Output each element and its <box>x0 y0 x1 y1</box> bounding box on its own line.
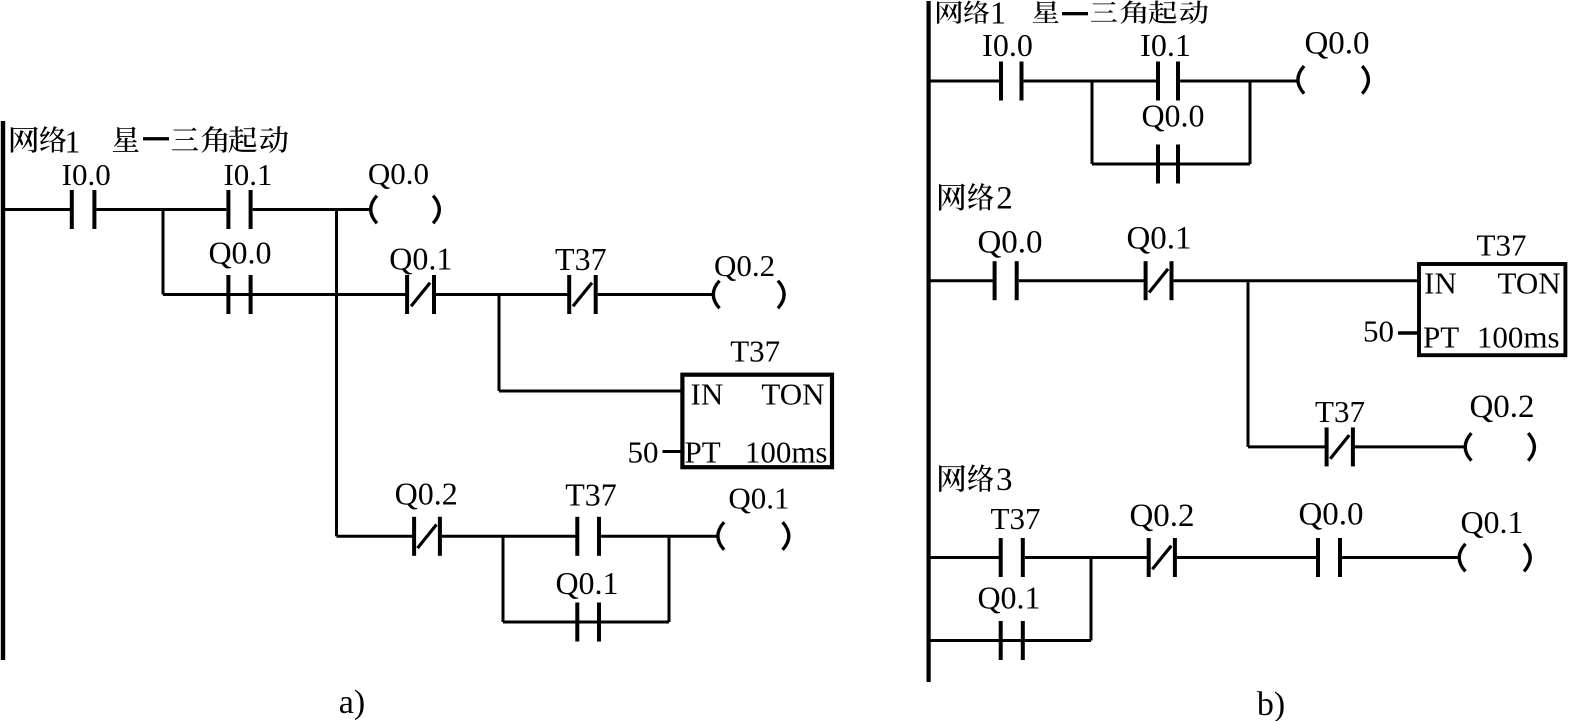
wire: T37 to coil Q0.2 (a) <box>598 293 714 296</box>
contact Q0.0 parallel (a) <box>208 235 271 315</box>
svg-text:1: 1 <box>990 0 1006 31</box>
contact T37 (b net3) <box>991 501 1041 577</box>
coil Q0.2 (a) <box>713 248 784 308</box>
network 1 title (panel a): 网络1 星-三角起动 <box>11 124 288 160</box>
svg-text:50: 50 <box>1363 314 1394 349</box>
wire: Q0.1 to timer IN (b net2) <box>1174 279 1419 282</box>
junction drop wire (b net1): left <box>1091 81 1094 164</box>
svg-text:T37: T37 <box>1315 394 1365 429</box>
junction drop wire (b net1): right <box>1249 81 1252 164</box>
svg-text:Q0.1: Q0.1 <box>389 241 452 277</box>
contact Q0.2 NC (b net3) <box>1129 498 1194 577</box>
svg-text:TON: TON <box>761 377 824 412</box>
svg-text:Q0.1: Q0.1 <box>1126 221 1191 257</box>
wire: T37 to coil Q0.2 (b net2) <box>1355 445 1465 448</box>
svg-text:Q0.0: Q0.0 <box>368 156 429 191</box>
svg-text:TON: TON <box>1497 266 1560 301</box>
svg-text:2: 2 <box>996 181 1013 217</box>
svg-text:T37: T37 <box>565 477 617 513</box>
wire: I0.1 to coil Q0.0 (a) <box>253 208 371 211</box>
junction drop wire (a): rung2 to timer input <box>498 295 501 392</box>
svg-text:Q0.1: Q0.1 <box>1460 504 1523 540</box>
wire: Q0.1 parallel branch (b net3) <box>930 639 1092 642</box>
timer box T37 TON (a) <box>682 334 832 470</box>
svg-text:b): b) <box>1257 686 1285 721</box>
vertical bus wire (a): rung1 down to rung3 <box>335 210 338 537</box>
svg-text:I0.1: I0.1 <box>1140 27 1191 63</box>
wire: branch to T37 NC (b net2) <box>1248 445 1327 448</box>
contact Q0.1 parallel (b net3) <box>977 580 1040 661</box>
coil Q0.1 (a) <box>718 481 790 550</box>
svg-text:100ms: 100ms <box>1477 320 1560 355</box>
wire: rail to contact I0.0 (a net1) <box>5 208 70 211</box>
junction drop wire (b net2): rung to T37 branch <box>1247 281 1250 447</box>
left power rail (panel a) <box>1 121 5 660</box>
network 3 title (panel b): 网络3 <box>939 462 1012 498</box>
wire: bus to Q0.1 NC (a rung2) <box>337 293 408 296</box>
network 1 title (panel b): 网络1 星-三角起动 <box>937 0 1208 31</box>
svg-text:I0.0: I0.0 <box>982 27 1033 63</box>
svg-text:T37: T37 <box>1477 228 1527 263</box>
left power rail (panel b) <box>926 1 930 682</box>
svg-text:Q0.2: Q0.2 <box>395 476 458 512</box>
wire: I0.1 to coil Q0.0 (b) <box>1180 80 1298 83</box>
svg-text:Q0.1: Q0.1 <box>555 565 618 601</box>
svg-text:3: 3 <box>996 462 1013 498</box>
svg-text:IN: IN <box>1424 266 1457 301</box>
wire: T37 to Q0.2 NC (b net3) <box>1025 556 1149 559</box>
contact I0.1 (a) <box>223 157 272 229</box>
wire: Q0.0 to coil Q0.1 (b net3) <box>1342 556 1459 559</box>
contact Q0.0 (b net2) <box>977 225 1042 301</box>
contact Q0.1 NC (b net2) <box>1126 221 1191 301</box>
wire: branch into timer IN (a) <box>499 390 682 393</box>
junction drop wire (b net3): to Q0.1 parallel <box>1090 558 1093 641</box>
wire: I0.0 to I0.1 (a) <box>97 208 227 211</box>
svg-text:Q0.0: Q0.0 <box>1141 98 1204 134</box>
contact Q0.0 (b net3) <box>1298 497 1363 578</box>
svg-text:Q0.0: Q0.0 <box>208 235 271 271</box>
wire: rail to Q0.0 (b net2) <box>930 279 995 282</box>
svg-text:Q0.1: Q0.1 <box>728 481 789 516</box>
svg-text:PT: PT <box>685 435 721 470</box>
contact I0.1 (b) <box>1140 27 1191 101</box>
svg-text:IN: IN <box>691 377 724 412</box>
PT preset value 50 with tick (a) <box>628 435 683 470</box>
wire: T37 to coil Q0.1 (a) <box>601 535 718 538</box>
contact Q0.1 NC (a) <box>389 241 452 315</box>
contact I0.0 (a) <box>62 157 111 229</box>
coil Q0.0 (a) <box>368 156 439 223</box>
svg-text:50: 50 <box>628 435 659 470</box>
svg-text:Q0.0: Q0.0 <box>1304 26 1369 62</box>
svg-text:T37: T37 <box>991 501 1041 536</box>
contact Q0.0 parallel (b) <box>1141 98 1204 184</box>
svg-text:Q0.0: Q0.0 <box>977 225 1042 261</box>
svg-text:T37: T37 <box>730 334 780 369</box>
contact T37 NC (b net2) <box>1315 394 1365 466</box>
svg-text:Q0.0: Q0.0 <box>1298 497 1363 533</box>
wire: Q0.1 parallel branch (a) <box>503 621 669 624</box>
coil Q0.1 (b net3) <box>1459 504 1530 571</box>
svg-text:I0.0: I0.0 <box>62 157 111 192</box>
svg-text:I0.1: I0.1 <box>223 157 272 192</box>
svg-text:1: 1 <box>65 124 81 160</box>
wire: Q0.0 to Q0.1 (b net2) <box>1019 279 1146 282</box>
PT preset value 50 with tick (b) <box>1363 314 1419 349</box>
contact I0.0 (b) <box>982 27 1033 101</box>
wire: Q0.2 to Q0.0 (b net3) <box>1177 556 1318 559</box>
contact T37 NC (a) <box>555 241 607 314</box>
junction drop wire (a): rung3 right to Q0.1 parallel <box>668 536 671 622</box>
timer box T37 TON (b) <box>1419 228 1565 356</box>
svg-text:a): a) <box>339 684 365 721</box>
network 2 title (panel b): 网络2 <box>939 181 1013 217</box>
contact T37 (a) <box>565 477 617 556</box>
junction drop wire (a): rung1 to Q0.0 parallel branch <box>162 210 165 295</box>
contact Q0.2 NC (a) <box>395 476 458 556</box>
svg-text:Q0.2: Q0.2 <box>1469 389 1534 425</box>
wire: Q0.1 to T37 NC (a) <box>436 293 569 296</box>
svg-text:Q0.2: Q0.2 <box>1129 498 1194 534</box>
junction drop wire (a): rung3 left to Q0.1 parallel <box>502 536 505 622</box>
svg-text:PT: PT <box>1423 320 1459 355</box>
wire: Q0.2 to T37 (a) <box>442 535 577 538</box>
wire: bus to Q0.2 NC (a rung3) <box>337 535 415 538</box>
wire: Q0.0 parallel branch (b net1) <box>1092 163 1250 166</box>
svg-text:100ms: 100ms <box>745 435 828 470</box>
wire: I0.0 to I0.1 (b) <box>1024 80 1158 83</box>
contact Q0.1 parallel (a) <box>555 565 618 642</box>
wire: rail to T37 (b net3) <box>930 556 1003 559</box>
wire: rail to contact I0.0 (b net1) <box>930 80 1002 83</box>
wire: parallel branch through Q0.0 (a) <box>163 293 337 296</box>
svg-text:Q0.1: Q0.1 <box>977 580 1040 616</box>
coil Q0.0 (b) <box>1298 26 1370 94</box>
svg-text:T37: T37 <box>555 241 607 277</box>
svg-text:Q0.2: Q0.2 <box>714 248 775 283</box>
coil Q0.2 (b net2) <box>1465 389 1534 461</box>
